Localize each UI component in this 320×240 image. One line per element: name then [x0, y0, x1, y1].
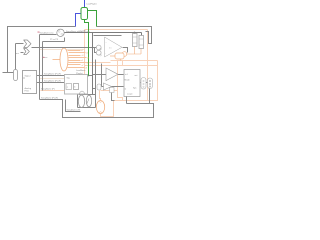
svg-text:LoadSave: LoadSave [76, 70, 86, 72]
svg-text:SongName abcde (P) xyz: SongName abcde (P) xyz [66, 31, 90, 33]
svg-text:Filter: Filter [25, 90, 30, 93]
svg-text:P1 or P3: P1 or P3 [50, 38, 59, 41]
svg-text:Signal: Signal [25, 76, 31, 78]
svg-text:SongName (C): SongName (C) [40, 32, 54, 34]
svg-text:0.5: 0.5 [109, 47, 112, 49]
svg-text:s8: s8 [85, 67, 87, 69]
svg-text:m_0.6: m_0.6 [80, 30, 87, 32]
svg-text:SongName (P) (F): SongName (P) (F) [41, 98, 58, 100]
svg-text:s1: s1 [81, 50, 83, 52]
svg-text:SongName (P): SongName (P) [67, 110, 81, 112]
svg-text:LoadPlaylist: LoadPlaylist [87, 3, 98, 6]
svg-text:Analog: Analog [25, 87, 32, 90]
svg-text:Sys: Sys [133, 88, 136, 90]
svg-text:s7: s7 [82, 65, 84, 67]
svg-text:out: out [135, 74, 138, 77]
svg-text:scope: scope [127, 94, 133, 96]
svg-text:s5: s5 [81, 60, 83, 62]
svg-text:SongName (P) (F): SongName (P) (F) [44, 81, 61, 83]
svg-text:Playlist: Playlist [76, 72, 83, 75]
svg-text:s3: s3 [82, 55, 84, 57]
svg-text:s2: s2 [86, 52, 88, 54]
svg-text:+: + [106, 42, 107, 44]
svg-text:SongName (P): SongName (P) [41, 88, 55, 90]
svg-text:s4: s4 [87, 57, 89, 59]
svg-text:s6: s6 [87, 62, 89, 64]
svg-text:SongName (P) (F): SongName (P) (F) [44, 74, 61, 76]
svg-text:Mode: Mode [125, 79, 131, 81]
